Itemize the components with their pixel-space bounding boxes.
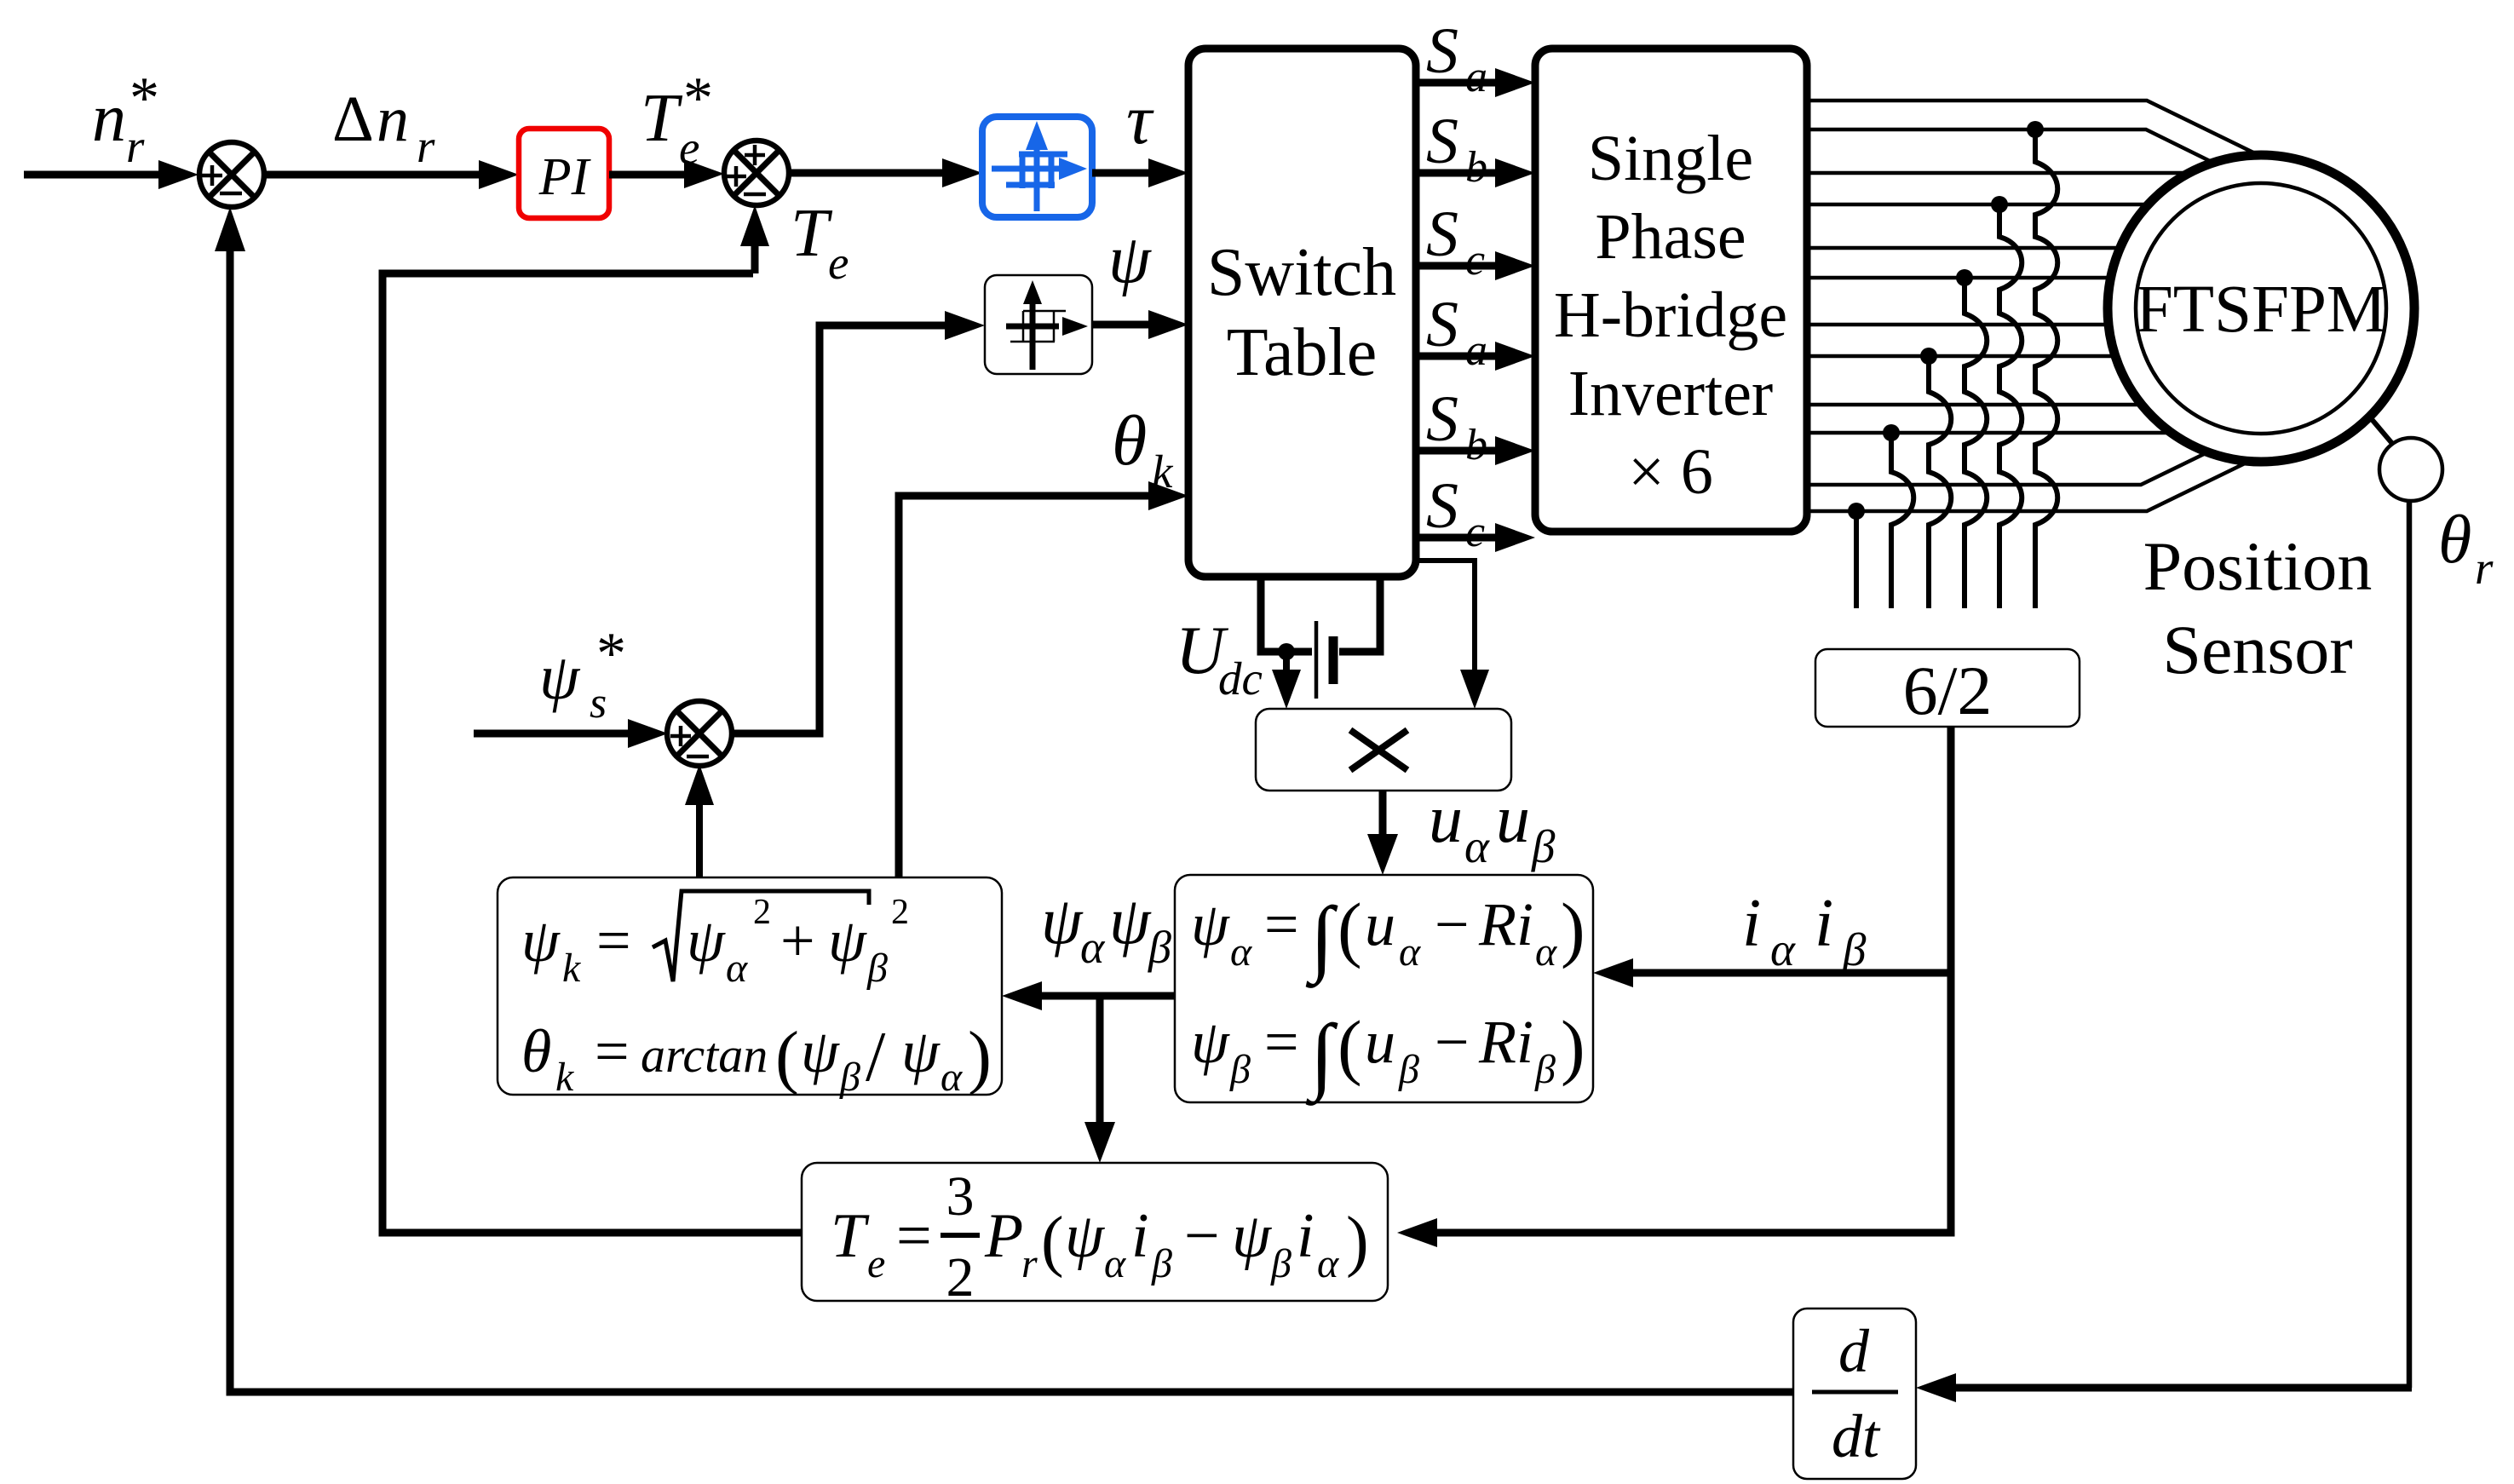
svg-text:i: i <box>1297 1201 1315 1271</box>
svg-text:T: T <box>641 81 683 156</box>
svg-text:P: P <box>984 1201 1023 1271</box>
svg-text:ψ: ψ <box>1108 222 1152 297</box>
svg-text:ψ: ψ <box>539 641 581 713</box>
wire motor lead y=203 <box>1807 171 2183 175</box>
wire motor lead y=152 <box>1807 129 2210 161</box>
svg-text:b: b <box>1465 143 1487 192</box>
wire S_b #2 Switch Table to inverter <box>1416 170 1499 177</box>
label S_b <box>1426 383 1487 469</box>
block: d/dt <box>1793 1309 1916 1479</box>
arrowhead into S2 <box>684 159 724 188</box>
label psi_s* <box>539 621 626 728</box>
wire motor lead y=475 <box>1807 403 2138 407</box>
svg-text:β: β <box>839 1055 860 1100</box>
svg-text:α: α <box>1317 1241 1339 1286</box>
svg-text:u: u <box>1365 1008 1395 1076</box>
svg-text:FTSFPM: FTSFPM <box>2136 273 2386 347</box>
wire Udc down to multiplier <box>1283 652 1290 673</box>
svg-text:ψ: ψ <box>1041 883 1084 958</box>
motor FTSFPM outer ring <box>2108 155 2414 462</box>
svg-text:*: * <box>683 66 713 131</box>
svg-text:(: ( <box>775 1017 799 1096</box>
block: 6/2 current transform <box>1815 649 2080 729</box>
wire drop to 6/2 from (2179,600) <box>1854 511 1859 608</box>
svg-text:S: S <box>1426 383 1458 455</box>
label S_a <box>1426 15 1487 101</box>
svg-text:k: k <box>562 946 582 991</box>
wire motor lead y=508 <box>1807 431 2167 435</box>
wire drop to 6/2 from (2264,418) <box>1929 356 1951 608</box>
svg-text:*: * <box>596 621 626 687</box>
arrowhead into flux hysteresis <box>945 311 985 340</box>
svg-text:α: α <box>726 946 748 991</box>
svg-text:6/2: 6/2 <box>1903 652 1993 729</box>
block: flux integrator equations <box>1175 875 1593 1106</box>
svg-text:b: b <box>1465 421 1487 469</box>
svg-text:T: T <box>791 196 833 271</box>
wire S_b #5 Switch Table to inverter <box>1416 447 1499 455</box>
wire drop to 6/2 from (2389,152) <box>2035 129 2057 608</box>
arrowhead into S1 <box>158 160 198 189</box>
svg-text:(: ( <box>1041 1204 1064 1279</box>
wire Udc left lead <box>1261 577 1312 652</box>
svg-text:S: S <box>1426 289 1458 360</box>
svg-text:ψ: ψ <box>1191 890 1230 958</box>
wire into d/dt <box>1953 1384 2412 1392</box>
torque hysteresis comparator (blue) <box>982 117 1092 217</box>
svg-text:Ri: Ri <box>1478 890 1533 958</box>
svg-text:a: a <box>1465 326 1487 375</box>
svg-text:β: β <box>1531 820 1556 872</box>
svg-text:n: n <box>377 83 409 155</box>
svg-text:β: β <box>1229 1047 1251 1092</box>
wire 6/2 output down <box>1434 727 1951 1233</box>
svg-text:+: + <box>780 906 815 975</box>
svg-text:β: β <box>1270 1241 1292 1286</box>
block: Switch Table <box>1188 49 1416 577</box>
svg-text:S: S <box>1426 15 1458 87</box>
wire position sensor down <box>2407 501 2413 1388</box>
svg-text:c: c <box>1465 236 1485 285</box>
svg-text:2: 2 <box>753 893 771 932</box>
svg-text:r: r <box>1021 1241 1038 1286</box>
svg-text:α: α <box>1080 922 1106 973</box>
wire S_c #6 Switch Table to inverter <box>1416 534 1499 542</box>
svg-text:β: β <box>1398 1047 1419 1092</box>
label n_r* <box>92 66 159 172</box>
svg-text:α: α <box>1230 929 1252 975</box>
label Delta n_r <box>332 83 435 172</box>
svg-text:(: ( <box>1338 888 1362 969</box>
label theta_r <box>2438 503 2494 594</box>
wire motor lead y=569 <box>1807 454 2204 485</box>
label theta_k <box>1112 401 1174 498</box>
summing junction S3 (flux error) <box>667 701 732 766</box>
svg-text:k: k <box>1152 446 1174 498</box>
summing junction S1 (speed error) <box>199 142 264 207</box>
node: junction dot on motor lead y=152 <box>2027 121 2044 138</box>
svg-text:(: ( <box>1338 1005 1362 1087</box>
wire down to torque calc <box>1096 996 1104 1126</box>
wire S2 to torque hysteresis <box>789 170 946 177</box>
svg-text:r: r <box>417 120 435 172</box>
wire psi into Switch Table <box>1092 321 1152 329</box>
wire S_a #1 Switch Table to inverter <box>1416 79 1499 87</box>
battery long plate <box>1315 621 1319 699</box>
svg-text:β: β <box>1148 922 1171 973</box>
svg-text:arctan: arctan <box>641 1027 768 1083</box>
label S_c <box>1426 198 1485 285</box>
block: flux magnitude and angle equations <box>498 877 1002 1100</box>
position sensor circle <box>2379 438 2442 501</box>
battery short plate <box>1329 636 1338 684</box>
svg-text:∫: ∫ <box>1305 1007 1338 1106</box>
wire T_e arrow up into S2 <box>751 243 759 273</box>
svg-text:=: = <box>896 1201 932 1271</box>
arrowhead into torque hysteresis <box>942 158 982 187</box>
wire tau into Switch Table <box>1092 170 1152 177</box>
node: junction dot on motor lead y=418 <box>1920 348 1937 365</box>
svg-text:2: 2 <box>891 893 909 932</box>
svg-text:ψ: ψ <box>687 906 726 975</box>
label S_c <box>1426 470 1485 556</box>
svg-text:c: c <box>1465 508 1485 556</box>
wire motor lead y=326 <box>1807 276 2108 280</box>
svg-text:Table: Table <box>1227 315 1378 390</box>
svg-text:α: α <box>1770 923 1796 975</box>
label i_alpha i_beta <box>1742 886 1867 975</box>
svg-text:τ: τ <box>1126 80 1154 159</box>
wire motor lead y=600 <box>1807 463 2245 511</box>
svg-text:k: k <box>555 1055 575 1100</box>
block: torque equation <box>802 1163 1388 1309</box>
node: junction dot on motor lead y=600 <box>1848 503 1865 520</box>
svg-text:θ: θ <box>521 1017 551 1085</box>
svg-text:=: = <box>596 906 631 975</box>
summing junction S2 (torque error) <box>724 141 789 205</box>
wire S_a #4 Switch Table to inverter <box>1416 353 1499 360</box>
svg-text:ψ: ψ <box>901 1017 941 1085</box>
multiplier block <box>1256 709 1511 791</box>
svg-text:β: β <box>1534 1047 1556 1092</box>
wire S3 output <box>731 325 948 733</box>
svg-text:dt: dt <box>1832 1402 1881 1470</box>
svg-text:Ri: Ri <box>1478 1008 1533 1076</box>
svg-text:α: α <box>1399 929 1421 975</box>
wire motor lead y=381 <box>1807 323 2106 327</box>
svg-text:=: = <box>1264 1008 1299 1076</box>
wire T_e feedback <box>383 273 801 1233</box>
svg-text:): ) <box>1561 1005 1585 1087</box>
svg-text:i: i <box>1131 1201 1149 1271</box>
svg-text:r: r <box>2475 542 2494 594</box>
wire drop to 6/2 from (2306,326) <box>1965 278 1987 608</box>
svg-text:2: 2 <box>946 1246 975 1309</box>
svg-text:n: n <box>92 81 126 156</box>
wire drop to 6/2 from (2347,240) <box>1999 204 2022 608</box>
svg-text:Inverter: Inverter <box>1568 358 1774 429</box>
svg-text:PI: PI <box>538 148 592 206</box>
svg-text:/: / <box>866 1017 886 1096</box>
label Position Sensor <box>2143 527 2373 688</box>
svg-text:e: e <box>867 1241 885 1286</box>
svg-text:u: u <box>1365 890 1395 958</box>
wire motor lead y=291 <box>1807 246 2117 250</box>
label T_e <box>791 196 849 289</box>
wire n_r* input <box>24 171 164 179</box>
wire Sc branch to multiplier <box>1416 561 1475 673</box>
wire speed feedback to S1 <box>230 251 1793 1392</box>
PI controller (red) <box>519 129 609 218</box>
wire psi_alpha psi_beta <box>1038 992 1175 1000</box>
wire theta_k from flux model to Switch Table <box>899 496 1152 877</box>
svg-text:dc: dc <box>1218 653 1263 705</box>
wire Udc right lead <box>1339 577 1380 652</box>
wire drop to 6/2 from (2220,508) <box>1891 433 1913 608</box>
wire motor lead y=118 <box>1807 101 2253 152</box>
radical sign <box>653 891 869 981</box>
svg-text:ψ: ψ <box>828 906 867 975</box>
label T_e* <box>641 66 713 174</box>
svg-text:u: u <box>1429 782 1463 857</box>
block: single-phase H-bridge inverter x6 <box>1535 49 1807 532</box>
wire S_c #3 Switch Table to inverter <box>1416 262 1499 270</box>
svg-text:d: d <box>1838 1317 1870 1385</box>
wire flux magnitude to S3 <box>696 801 703 877</box>
svg-text:ψ: ψ <box>1065 1201 1106 1271</box>
svg-text:Single: Single <box>1588 123 1753 194</box>
svg-text:S: S <box>1426 470 1458 542</box>
node: junction dot on motor lead y=240 <box>1991 196 2008 213</box>
svg-text:Phase: Phase <box>1595 201 1746 273</box>
svg-text:β: β <box>1842 923 1867 975</box>
wire PI to S2 <box>609 171 687 179</box>
svg-text:Position: Position <box>2143 527 2373 605</box>
svg-text:Switch: Switch <box>1207 235 1396 310</box>
svg-text:α: α <box>1535 929 1557 975</box>
svg-text:∫: ∫ <box>1305 889 1338 988</box>
arrowhead into S3 <box>628 719 668 748</box>
svg-text:=: = <box>1264 890 1299 958</box>
svg-text:Sensor: Sensor <box>2162 611 2352 688</box>
svg-text:ψ: ψ <box>1109 883 1152 958</box>
svg-text:a: a <box>1465 53 1487 101</box>
svg-text:*: * <box>129 66 159 131</box>
svg-text:θ: θ <box>1112 401 1147 480</box>
motor FTSFPM inner ring <box>2136 183 2386 434</box>
node: junction dot on motor lead y=508 <box>1883 424 1900 441</box>
svg-text:ψ: ψ <box>1191 1008 1230 1076</box>
label u_alpha u_beta <box>1429 782 1556 872</box>
svg-text:−: − <box>1435 890 1470 958</box>
svg-text:−: − <box>1184 1201 1220 1271</box>
wire multiplier output <box>1379 791 1387 839</box>
svg-text:S: S <box>1426 106 1458 177</box>
svg-text:): ) <box>1346 1204 1369 1279</box>
position sensor link <box>2371 418 2413 468</box>
svg-text:=: = <box>595 1017 630 1085</box>
svg-text:ψ: ψ <box>801 1017 840 1085</box>
svg-text:α: α <box>1464 820 1490 872</box>
node: junction dot on motor lead y=326 <box>1956 269 1973 286</box>
arrowhead into torque calc <box>1397 1218 1437 1247</box>
svg-text:H-bridge: H-bridge <box>1554 279 1787 351</box>
svg-text:−: − <box>1435 1008 1470 1076</box>
svg-text:3: 3 <box>946 1165 975 1228</box>
wire motor lead y=418 <box>1807 354 2113 359</box>
svg-text:β: β <box>1151 1241 1172 1286</box>
svg-text:e: e <box>828 237 849 289</box>
arrowhead into PI <box>479 160 519 189</box>
flux hysteresis comparator <box>985 275 1092 374</box>
svg-text:× 6: × 6 <box>1628 436 1713 508</box>
label U_dc <box>1176 613 1263 705</box>
svg-text:ψ: ψ <box>1232 1201 1273 1271</box>
label psi_alpha psi_beta <box>1041 883 1171 973</box>
wire psi_s* input <box>474 730 631 738</box>
wire motor lead y=240 <box>1807 203 2145 207</box>
svg-text:θ: θ <box>2438 503 2471 578</box>
svg-text:Δ: Δ <box>332 83 374 155</box>
svg-text:): ) <box>1561 888 1585 969</box>
wire S1 to PI <box>264 171 482 179</box>
svg-text:): ) <box>968 1017 992 1096</box>
svg-text:S: S <box>1426 198 1458 270</box>
svg-text:β: β <box>866 946 888 991</box>
svg-text:T: T <box>831 1201 870 1271</box>
svg-text:α: α <box>941 1055 963 1100</box>
label S_b <box>1426 106 1487 192</box>
svg-text:i: i <box>1815 886 1833 961</box>
svg-text:i: i <box>1742 886 1761 961</box>
wire i_alpha i_beta to integrator <box>1630 969 1951 977</box>
svg-text:α: α <box>1104 1241 1126 1286</box>
label S_a <box>1426 289 1487 375</box>
node: Udc junction dot <box>1278 643 1295 660</box>
svg-text:ψ: ψ <box>521 906 561 975</box>
svg-text:u: u <box>1496 782 1530 857</box>
